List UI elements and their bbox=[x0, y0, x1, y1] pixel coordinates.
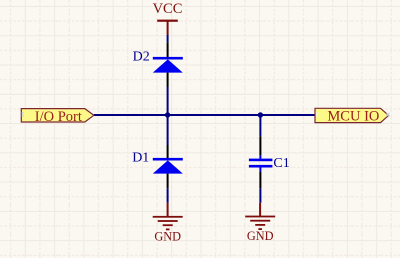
wire: I/O Port to MCU IO horizontal net bbox=[94, 114, 315, 116]
svg-text:GND: GND bbox=[247, 229, 274, 243]
svg-text:MCU IO: MCU IO bbox=[327, 109, 379, 125]
port I/O Port bbox=[21, 109, 94, 125]
junction dot left bbox=[165, 112, 170, 117]
wire: VCC to D2 bbox=[167, 35, 169, 42]
svg-text:GND: GND bbox=[154, 230, 181, 244]
svg-text:D1: D1 bbox=[132, 151, 149, 166]
wire: D1 to GND bbox=[167, 188, 169, 203]
ground GND left bbox=[153, 203, 183, 244]
svg-text:D2: D2 bbox=[133, 50, 150, 65]
port MCU IO bbox=[315, 108, 390, 124]
power port VCC bbox=[153, 1, 183, 35]
wire: C1 to GND bbox=[259, 188, 261, 203]
ground GND right bbox=[245, 203, 275, 243]
svg-text:I/O Port: I/O Port bbox=[35, 109, 82, 125]
wire: D2 to D1 vertical bbox=[167, 87, 169, 145]
capacitor C1 bbox=[249, 136, 273, 188]
svg-text:VCC: VCC bbox=[153, 1, 183, 17]
svg-text:C1: C1 bbox=[273, 156, 289, 171]
junction dot right bbox=[258, 112, 263, 117]
diode D2 bbox=[153, 42, 183, 87]
diode D1 bbox=[153, 145, 183, 188]
wire: net to C1 bbox=[259, 115, 261, 136]
